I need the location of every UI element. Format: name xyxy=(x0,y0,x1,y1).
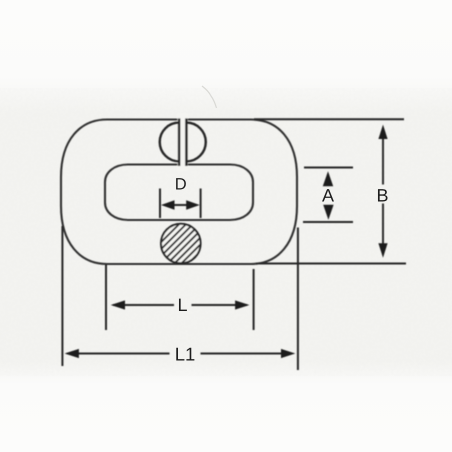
right half-section semicircle xyxy=(186,123,205,162)
B dimension line xyxy=(382,129,384,185)
D dimension ticks xyxy=(159,189,161,219)
hatched wire cross-section circle xyxy=(161,224,201,264)
chain link inner opening xyxy=(105,165,253,221)
B dimension extension lines xyxy=(254,118,404,120)
cut edge left xyxy=(178,118,181,166)
cut edge right xyxy=(185,118,188,166)
L dimension line xyxy=(113,304,174,306)
L1 dimension line xyxy=(67,353,170,355)
chain link outer outline xyxy=(61,120,297,265)
A arrows xyxy=(323,171,333,186)
svg-text:B: B xyxy=(376,185,388,205)
L dimension extension lines xyxy=(105,265,107,331)
paper grain xyxy=(0,88,452,376)
A dimension extension lines xyxy=(304,167,353,169)
D dimension arrows xyxy=(172,204,189,206)
left half-section semicircle xyxy=(160,123,179,162)
svg-text:A: A xyxy=(322,185,334,205)
L1 dimension extension lines xyxy=(61,226,63,366)
svg-text:D: D xyxy=(175,175,187,193)
svg-text:L: L xyxy=(177,295,187,315)
faint scan scratch xyxy=(202,86,217,108)
cut gap eraser xyxy=(177,113,187,171)
svg-text:L1: L1 xyxy=(175,344,196,365)
